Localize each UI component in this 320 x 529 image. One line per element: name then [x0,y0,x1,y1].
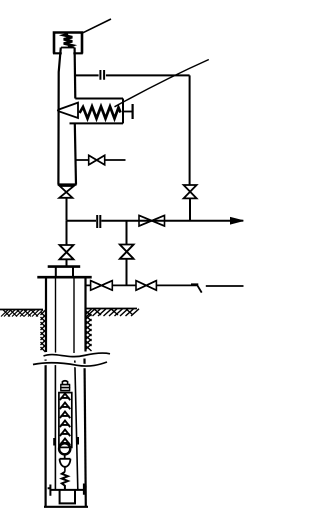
screw device right edge [122,99,124,124]
manifold arrow [230,220,243,222]
tubing column bottom [58,183,77,185]
lower wellhead flange [37,276,91,279]
ground line right [86,308,137,310]
casing walls above break [46,277,86,352]
casing line tail [206,285,244,287]
valve V7 casing line [91,281,113,291]
pump barrel [59,393,72,448]
anchor left end [48,485,51,496]
screw device top [75,98,123,100]
valve V6 on drop pipe [120,245,134,259]
valve V1 on riser [184,185,197,198]
pipe from V3 to manifold [66,198,68,221]
union plates [100,70,104,80]
left tick [53,438,55,446]
wellhead neck walls [56,267,73,276]
sample point tick [191,284,202,293]
pump rotor helix [60,394,70,446]
leader line to screw device [115,60,209,107]
riser pipe right [189,75,191,184]
tubing column left wall [58,48,60,185]
ground hatch left [1,310,43,317]
branch drop pipe [126,221,128,244]
device stem [123,111,132,113]
anchor crossbar [51,489,85,491]
manifold line [67,220,231,222]
ground line left [0,309,43,311]
shoe box [60,490,75,503]
anchor right end [84,484,87,495]
riser pipe below valve [189,198,191,220]
tubing walls below break [54,362,56,490]
cup stem [64,467,66,472]
tubing walls above break [56,277,75,353]
valve V4 on manifold [139,215,165,226]
rotor head circle [59,443,70,454]
leader line to drive head [81,19,111,34]
drive head spring [64,34,73,47]
drive head box [54,33,82,54]
cone [58,103,78,118]
break line upper [44,353,111,357]
tubing column top [61,47,75,49]
ground hatch right [87,309,139,316]
cement hatch left [41,310,46,352]
device stem T-bar [132,104,134,119]
valve V5 wellhead master [60,245,74,259]
screw device bottom [70,122,124,124]
right tick [77,437,79,445]
drain valve V2 [89,155,105,165]
pump top cap [62,381,67,385]
cement hatch right [86,309,92,351]
casing walls below break [44,360,46,507]
upper wellhead flange [48,265,80,268]
valve V8 casing line [136,281,156,291]
tubing column right wall lower [75,124,76,185]
valve V3 below column [59,186,74,198]
tail spring [62,472,68,490]
stem to flange [66,259,68,265]
flowline with union (capacitor symbol) [75,74,189,76]
drain branch line [76,159,126,161]
cup seat [60,454,71,466]
tubing column right wall upper [73,48,76,99]
pipe column to casing valve [66,221,68,245]
manifold union plates [97,215,100,228]
screw coil [80,107,121,119]
casing branch line [86,284,197,286]
break line lower [33,362,107,366]
drop pipe to casing line [126,259,128,286]
casing bottom [44,506,88,508]
